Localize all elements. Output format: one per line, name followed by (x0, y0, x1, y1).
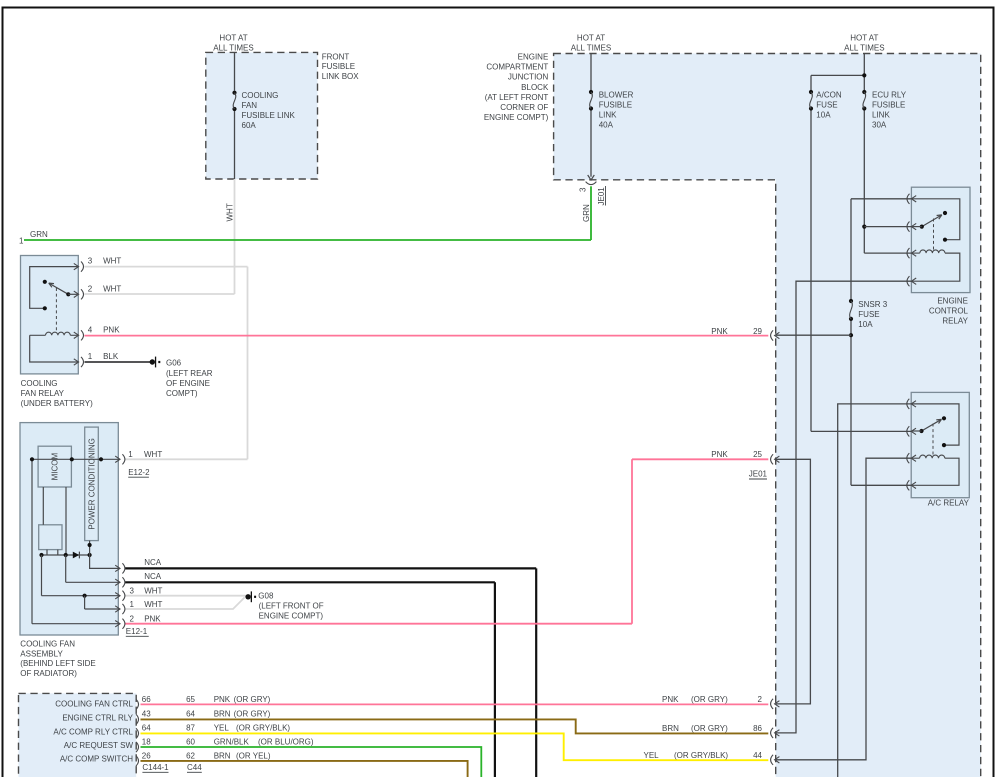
svg-text:BLOWER: BLOWER (599, 91, 634, 100)
svg-text:JE01: JE01 (749, 470, 768, 479)
svg-text:3: 3 (88, 257, 93, 266)
svg-text:ENGINE COMPT): ENGINE COMPT) (259, 612, 324, 621)
svg-text:(UNDER BATTERY): (UNDER BATTERY) (21, 399, 93, 408)
svg-text:87: 87 (186, 724, 195, 733)
svg-text:A/CON: A/CON (816, 91, 842, 100)
svg-text:COMPARTMENT: COMPARTMENT (486, 63, 548, 72)
svg-text:FAN RELAY: FAN RELAY (21, 389, 65, 398)
svg-text:(OR GRY/BLK): (OR GRY/BLK) (236, 724, 290, 733)
svg-text:COMPT): COMPT) (166, 389, 198, 398)
svg-text:ENGINE CTRL RLY: ENGINE CTRL RLY (62, 714, 133, 723)
svg-text:RELAY: RELAY (942, 317, 968, 326)
svg-text:BLOCK: BLOCK (521, 83, 549, 92)
svg-text:CORNER OF: CORNER OF (500, 103, 548, 112)
svg-text:FAN: FAN (242, 101, 258, 110)
svg-text:COOLING FAN CTRL: COOLING FAN CTRL (55, 699, 133, 708)
svg-text:4: 4 (88, 326, 93, 335)
svg-text:GRN: GRN (30, 230, 48, 239)
svg-text:(LEFT FRONT OF: (LEFT FRONT OF (259, 602, 324, 611)
svg-text:ASSEMBLY: ASSEMBLY (20, 649, 63, 658)
svg-text:(BEHIND LEFT SIDE: (BEHIND LEFT SIDE (20, 659, 95, 668)
svg-text:G08: G08 (258, 592, 274, 601)
svg-text:64: 64 (186, 709, 195, 718)
svg-text:1: 1 (130, 600, 135, 609)
svg-text:E12-1: E12-1 (126, 627, 148, 636)
svg-text:LINK: LINK (599, 111, 617, 120)
svg-text:C44: C44 (187, 763, 202, 772)
svg-text:JE01: JE01 (597, 187, 606, 206)
svg-text:WHT: WHT (144, 586, 162, 595)
svg-text:2: 2 (130, 614, 135, 623)
svg-text:GRN: GRN (582, 204, 591, 222)
svg-text:PNK: PNK (711, 450, 728, 459)
svg-text:COOLING: COOLING (242, 91, 279, 100)
svg-text:A/C COMP RLY CTRL: A/C COMP RLY CTRL (53, 727, 133, 736)
svg-text:BRN: BRN (214, 709, 231, 718)
svg-text:POWER CONDITIONING: POWER CONDITIONING (87, 438, 96, 530)
svg-text:26: 26 (142, 752, 151, 761)
svg-text:NCA: NCA (144, 558, 162, 567)
svg-text:OF ENGINE: OF ENGINE (166, 379, 210, 388)
svg-text:WHT: WHT (103, 257, 121, 266)
svg-text:(OR GRY): (OR GRY) (234, 695, 271, 704)
svg-text:A/C COMP SWITCH: A/C COMP SWITCH (60, 755, 133, 764)
svg-text:66: 66 (142, 695, 151, 704)
svg-text:29: 29 (753, 327, 762, 336)
svg-text:3: 3 (130, 586, 135, 595)
svg-text:64: 64 (142, 724, 151, 733)
svg-text:ALL TIMES: ALL TIMES (213, 44, 253, 53)
svg-text:65: 65 (186, 695, 195, 704)
svg-text:FUSIBLE: FUSIBLE (599, 101, 632, 110)
svg-text:ENGINE COMPT): ENGINE COMPT) (484, 113, 549, 122)
svg-text:COOLING FAN: COOLING FAN (20, 640, 75, 649)
svg-text:MICOM: MICOM (51, 452, 60, 480)
svg-text:(OR YEL): (OR YEL) (236, 752, 271, 761)
svg-text:WHT: WHT (144, 600, 162, 609)
svg-text:FUSIBLE: FUSIBLE (872, 101, 905, 110)
svg-text:G06: G06 (166, 359, 182, 368)
svg-text:10A: 10A (858, 320, 873, 329)
svg-text:BRN: BRN (662, 724, 679, 733)
svg-text:ENGINE: ENGINE (518, 53, 549, 62)
svg-text:1: 1 (128, 450, 133, 459)
svg-text:FRONT: FRONT (322, 52, 350, 61)
svg-text:(OR GRY/BLK): (OR GRY/BLK) (674, 751, 728, 760)
svg-text:BLK: BLK (103, 352, 119, 361)
svg-text:40A: 40A (599, 120, 614, 129)
svg-text:E12-2: E12-2 (128, 468, 150, 477)
svg-text:WHT: WHT (103, 284, 121, 293)
svg-text:PNK: PNK (662, 695, 679, 704)
svg-text:3: 3 (579, 187, 588, 192)
svg-text:1: 1 (19, 237, 24, 246)
svg-text:FUSIBLE: FUSIBLE (322, 62, 355, 71)
svg-text:1: 1 (88, 352, 93, 361)
svg-text:A/C RELAY: A/C RELAY (928, 499, 970, 508)
svg-text:ALL TIMES: ALL TIMES (571, 44, 611, 53)
svg-text:BRN: BRN (214, 752, 231, 761)
svg-text:60: 60 (186, 738, 195, 747)
svg-text:GRN/BLK: GRN/BLK (214, 738, 250, 747)
svg-text:(AT LEFT FRONT: (AT LEFT FRONT (485, 93, 549, 102)
svg-text:18: 18 (142, 738, 151, 747)
svg-text:43: 43 (142, 709, 151, 718)
svg-text:PNK: PNK (103, 326, 120, 335)
svg-text:COOLING: COOLING (21, 379, 58, 388)
svg-text:10A: 10A (816, 110, 831, 119)
svg-text:YEL: YEL (214, 724, 230, 733)
svg-text:LINK BOX: LINK BOX (322, 72, 360, 81)
svg-text:JUNCTION: JUNCTION (508, 73, 549, 82)
svg-text:PNK: PNK (214, 695, 231, 704)
svg-text:WHT: WHT (225, 203, 234, 221)
svg-text:(OR BLU/ORG): (OR BLU/ORG) (258, 738, 314, 747)
svg-text:CONTROL: CONTROL (929, 307, 969, 316)
svg-text:LINK: LINK (872, 111, 890, 120)
svg-text:ALL TIMES: ALL TIMES (844, 44, 884, 53)
svg-text:C144-1: C144-1 (142, 763, 169, 772)
svg-text:25: 25 (753, 450, 762, 459)
svg-text:60A: 60A (242, 121, 257, 130)
svg-text:HOT AT: HOT AT (577, 34, 605, 43)
svg-text:WHT: WHT (144, 450, 162, 459)
svg-text:NCA: NCA (144, 572, 162, 581)
svg-text:(OR GRY): (OR GRY) (234, 709, 271, 718)
svg-text:62: 62 (186, 752, 195, 761)
svg-text:ECU RLY: ECU RLY (872, 91, 907, 100)
svg-text:(LEFT REAR: (LEFT REAR (166, 369, 213, 378)
svg-text:FUSE: FUSE (858, 310, 879, 319)
svg-text:2: 2 (88, 284, 93, 293)
svg-text:SNSR 3: SNSR 3 (858, 300, 887, 309)
svg-text:2: 2 (758, 695, 763, 704)
svg-text:(OR GRY): (OR GRY) (691, 695, 728, 704)
svg-text:(OR GRY): (OR GRY) (691, 724, 728, 733)
svg-text:30A: 30A (872, 120, 887, 129)
svg-text:ENGINE: ENGINE (937, 296, 968, 305)
svg-text:PNK: PNK (711, 327, 728, 336)
svg-text:44: 44 (753, 751, 762, 760)
svg-text:HOT AT: HOT AT (219, 34, 247, 43)
svg-text:PNK: PNK (144, 614, 161, 623)
svg-text:A/C REQUEST SW: A/C REQUEST SW (64, 741, 134, 750)
svg-text:FUSE: FUSE (816, 101, 837, 110)
svg-text:OF RADIATOR): OF RADIATOR) (20, 669, 77, 678)
svg-text:86: 86 (753, 724, 762, 733)
svg-text:YEL: YEL (644, 751, 660, 760)
svg-text:HOT AT: HOT AT (850, 34, 878, 43)
svg-text:FUSIBLE LINK: FUSIBLE LINK (242, 111, 296, 120)
